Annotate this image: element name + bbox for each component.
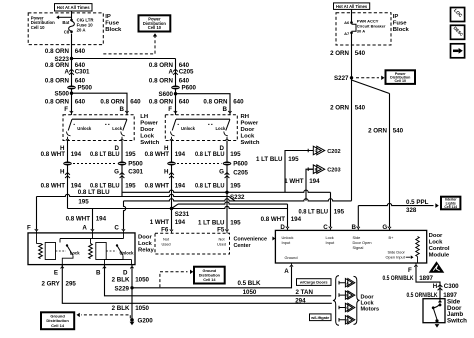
svg-text:194: 194 [175, 151, 186, 158]
svg-text:H: H [60, 169, 65, 176]
relay coil core (center) [96, 243, 106, 260]
svg-text:0.8 ORN: 0.8 ORN [149, 98, 174, 105]
svg-text:C203: C203 [327, 168, 340, 174]
svg-text:540: 540 [393, 128, 404, 135]
wire: LT BLU 195 bus (S232 line) [122, 190, 331, 192]
button DESC [451, 25, 465, 39]
svg-text:IP: IP [393, 14, 399, 20]
svg-text:0.8 ORN: 0.8 ORN [45, 48, 70, 55]
svg-text:0.8 ORN: 0.8 ORN [45, 98, 70, 105]
svg-text:30 A: 30 A [357, 28, 365, 33]
wire: 2 BLK 1050 relay D to G200 [131, 265, 133, 320]
wire: F6 drop 1 WHT 194 [171, 209, 173, 230]
reference box: Ground Distribution Cell 14 (center) [194, 267, 225, 284]
button LOC [451, 8, 465, 22]
wire: 0.8 WHT 194 to relay A [92, 209, 94, 230]
RH switch lock blade [226, 119, 230, 130]
splice S229 [130, 286, 133, 289]
svg-text:IP: IP [105, 14, 111, 20]
relay lock coil (center resistor) [90, 239, 92, 244]
svg-text:Cell 10: Cell 10 [31, 25, 45, 30]
circuit breaker PWR ACCY 30A (element) [351, 9, 353, 22]
svg-text:S231: S231 [175, 211, 190, 218]
reference box: Ground Distribution Cell 14 (left) [41, 312, 74, 329]
svg-text:Signal: Signal [353, 245, 364, 250]
wire: 2 ORN 540 from breaker [351, 45, 353, 201]
splice S231 [170, 207, 173, 210]
svg-text:328: 328 [406, 207, 417, 214]
svg-text:2 ORN: 2 ORN [330, 50, 349, 57]
svg-text:1050: 1050 [135, 305, 149, 312]
svg-text:195: 195 [288, 156, 299, 163]
wire: 1 WHT 194 riser to C203 [306, 169, 313, 201]
svg-text:540: 540 [355, 105, 366, 112]
RH power door lock switch box [165, 115, 237, 141]
svg-text:0.8 ORN: 0.8 ORN [203, 98, 228, 105]
wire: WHT 194 to module D (upper run) [172, 204, 179, 208]
svg-text:195: 195 [125, 183, 136, 190]
door lock relay box [28, 233, 135, 265]
svg-text:F5: F5 [217, 227, 225, 234]
ESD sensitive device symbol [429, 261, 445, 273]
wire: 0.5 ORN/BLK 1897 from module F [416, 266, 440, 303]
svg-text:A: A [82, 225, 87, 232]
svg-text:H: H [164, 169, 169, 176]
svg-text:Distribution: Distribution [199, 274, 221, 278]
svg-text:F: F [168, 106, 172, 113]
svg-text:A7: A7 [344, 31, 350, 36]
svg-text:Door: Door [429, 233, 443, 239]
svg-text:C301: C301 [75, 68, 90, 75]
LH power door lock switch box [63, 115, 134, 141]
arrow to side door open input resistor [406, 256, 411, 258]
svg-text:Bat: Bat [62, 20, 69, 25]
svg-text:Lock: Lock [241, 133, 255, 139]
svg-text:Hot At All Times: Hot At All Times [57, 5, 90, 10]
svg-text:S229: S229 [115, 286, 130, 293]
splice S227 [350, 76, 353, 79]
svg-text:2 GRY: 2 GRY [41, 280, 60, 287]
relay lock contact [66, 244, 68, 246]
svg-text:E: E [54, 269, 58, 276]
svg-text:S227: S227 [334, 75, 349, 82]
svg-text:Door: Door [241, 127, 255, 133]
svg-text:C301: C301 [128, 169, 143, 176]
dashed reference to ground distribution (G200) [81, 315, 130, 318]
side door jamb switch box [423, 299, 445, 323]
RH switch mechanical link [178, 123, 181, 125]
svg-text:Fuse: Fuse [105, 20, 119, 26]
connector C202 (double triangle) [308, 149, 313, 153]
wire: 2 GRY 295 relay E to door lock motors [62, 265, 332, 304]
pin H (RH switch bottom) [170, 137, 173, 141]
svg-text:G200: G200 [138, 317, 154, 324]
LH switch unlock blade [68, 119, 72, 130]
svg-text:640: 640 [179, 77, 190, 84]
dashed reference to ground distribution (S229) [160, 272, 188, 288]
door lock motor B [339, 293, 345, 297]
svg-text:P600: P600 [233, 161, 248, 168]
svg-text:640: 640 [75, 98, 86, 105]
svg-text:Lock: Lock [70, 250, 80, 255]
svg-text:H: H [433, 283, 438, 290]
svg-text:2 BLK: 2 BLK [112, 305, 130, 312]
svg-text:540: 540 [355, 50, 366, 57]
svg-text:195: 195 [230, 151, 241, 158]
svg-text:194: 194 [71, 151, 82, 158]
svg-text:1 WHT: 1 WHT [150, 219, 169, 226]
svg-text:194: 194 [175, 219, 186, 226]
svg-text:1 LT BLU: 1 LT BLU [198, 220, 225, 227]
svg-text:Lock: Lock [138, 241, 152, 247]
svg-text:Lock: Lock [361, 300, 375, 306]
svg-text:LH: LH [140, 114, 148, 120]
svg-text:195: 195 [78, 198, 89, 205]
wire: S600 branch to RH switch pin B [176, 94, 231, 115]
wire: 0.5 BLK 1050 S229 to module ground A [132, 266, 292, 288]
wire: 0.8 ORN 640 center vertical [175, 59, 177, 115]
svg-text:2 BLK: 2 BLK [112, 277, 130, 284]
svg-text:195: 195 [230, 183, 241, 190]
svg-text:Switch: Switch [241, 140, 260, 146]
svg-text:1050: 1050 [135, 277, 149, 284]
brace right (door lock motors) [354, 276, 360, 324]
svg-text:C300: C300 [444, 283, 459, 290]
wire: 0.8 LT BLU 195 from LH switch D [121, 141, 123, 197]
svg-text:A: A [169, 68, 174, 75]
svg-text:Cell 114: Cell 114 [444, 205, 457, 209]
arrow to power distribution [58, 16, 73, 18]
LH switch lock blade [123, 119, 127, 130]
svg-text:0.8 WHT: 0.8 WHT [41, 151, 66, 158]
option label w/Cargo Doors [297, 279, 332, 286]
svg-text:Motors: Motors [361, 307, 380, 313]
svg-text:0.8 LT BLU: 0.8 LT BLU [195, 151, 225, 158]
wire: 2 TAN 294 relay B to door lock motors [105, 265, 332, 296]
option label w/Liftgate [310, 314, 332, 321]
svg-text:Lock: Lock [216, 126, 226, 131]
svg-text:F: F [64, 106, 68, 113]
svg-text:194: 194 [291, 216, 302, 223]
dashed reference to power distribution (S227) [356, 77, 379, 79]
wire: relay C drop [124, 201, 126, 230]
svg-text:C202: C202 [327, 149, 340, 155]
svg-text:C205: C205 [179, 68, 194, 75]
svg-text:Cell 10: Cell 10 [394, 79, 406, 83]
wire: 0.8 WHT 194 from LH switch H [67, 141, 69, 209]
svg-text:20 A: 20 A [77, 28, 86, 33]
svg-text:Cell 14: Cell 14 [51, 323, 65, 328]
wire: 0.8 LT BLU 195 from RH switch D [226, 141, 228, 230]
pass-through grommets P500 (lower) [63, 162, 72, 166]
svg-text:Unlock: Unlock [120, 250, 135, 255]
relay link dashed (right) [106, 250, 116, 252]
svg-text:Input: Input [282, 240, 292, 245]
svg-text:C: C [114, 225, 119, 232]
svg-text:P500: P500 [78, 85, 93, 92]
label: Hot At All Times (left) [55, 4, 93, 11]
dashed reference wire to power distribution (top middle) [103, 36, 155, 54]
label: Hot At All Times (right) [334, 3, 370, 9]
svg-text:1050: 1050 [243, 289, 257, 296]
svg-text:0.8 WHT: 0.8 WHT [41, 183, 66, 190]
svg-text:RH: RH [241, 114, 250, 120]
svg-text:F6: F6 [161, 227, 169, 234]
splice S232 [225, 191, 228, 194]
pass-through grommet P600 [171, 86, 180, 90]
svg-text:Used: Used [161, 241, 170, 246]
svg-text:Block: Block [105, 27, 122, 33]
svg-text:640: 640 [75, 48, 86, 55]
svg-text:C205: C205 [233, 170, 248, 177]
svg-text:194: 194 [309, 178, 320, 185]
svg-text:B: B [96, 269, 101, 276]
svg-text:2 ORN: 2 ORN [368, 128, 387, 135]
svg-text:Convenience: Convenience [234, 237, 268, 243]
svg-text:195: 195 [334, 209, 345, 216]
wire: relay F drop [36, 197, 38, 230]
wire: 0.8 LT BLU 195 module C drop [330, 192, 332, 227]
svg-text:F: F [27, 225, 31, 232]
wire: 0.8 WHT 194 from RH switch H [171, 141, 173, 209]
wire: 0.8 LT BLU 195 to relay F [37, 194, 230, 196]
door lock motor D [339, 318, 345, 322]
svg-text:S600: S600 [159, 91, 174, 98]
svg-text:D: D [280, 224, 285, 231]
svg-text:Control: Control [429, 246, 450, 252]
svg-text:P600: P600 [182, 85, 197, 92]
svg-text:0.8 ORN: 0.8 ORN [45, 77, 70, 84]
svg-text:Unlock: Unlock [181, 126, 196, 131]
svg-text:0.5 ORN/BLK: 0.5 ORN/BLK [383, 275, 414, 282]
svg-text:Module: Module [429, 253, 450, 259]
door lock motor A [339, 281, 345, 285]
svg-text:S232: S232 [230, 194, 245, 201]
svg-text:A: A [284, 268, 289, 275]
svg-text:B+: B+ [389, 235, 395, 240]
wire: diagonal branch from S227 [352, 80, 390, 94]
LH switch mechanical link [74, 123, 77, 125]
convenience center dashed box [155, 233, 230, 254]
connector C203 (double triangle) [308, 167, 313, 171]
svg-text:295: 295 [66, 280, 77, 287]
svg-text:195: 195 [230, 220, 241, 227]
svg-text:0.8 WHT: 0.8 WHT [261, 216, 286, 223]
svg-text:F: F [408, 267, 412, 274]
svg-text:G: G [382, 224, 387, 231]
splice S500 [70, 92, 73, 95]
wire: 0.8 ORN 640 left vertical [71, 34, 73, 115]
input marker arrow (module left) [272, 237, 275, 241]
svg-text:D: D [123, 269, 128, 276]
svg-text:194: 194 [175, 183, 186, 190]
relay unlock contact [116, 244, 118, 246]
reference box: Power Distribution Cell 10 (top middle) [139, 15, 171, 31]
module internal resistor [416, 237, 419, 257]
svg-text:0.8 LT BLU: 0.8 LT BLU [90, 151, 120, 158]
svg-text:Ground: Ground [285, 255, 298, 260]
relay link dashed (left) [56, 250, 67, 252]
svg-text:640: 640 [130, 98, 141, 105]
splice S600 [174, 92, 177, 95]
svg-text:0.8 WHT: 0.8 WHT [145, 183, 170, 190]
relay unlock coil (left resistor) [36, 233, 38, 244]
svg-text:Relay: Relay [138, 247, 154, 253]
svg-text:Lock: Lock [429, 240, 443, 246]
svg-text:0.8 WHT: 0.8 WHT [66, 216, 91, 223]
wire: 2 ORN 540 to module G [389, 94, 391, 227]
svg-text:P500: P500 [128, 161, 143, 168]
wire: S223 to center column [72, 58, 176, 60]
svg-text:Block: Block [393, 27, 410, 33]
IP fuse block dashed box (left) [28, 13, 103, 45]
brace left (door lock motors) [333, 276, 339, 326]
relay coil core (left) [45, 243, 55, 260]
svg-text:Door: Door [361, 294, 375, 300]
svg-text:0.8 ORN: 0.8 ORN [149, 77, 174, 84]
relay internal top rail [60, 238, 124, 240]
side door jamb switch element [438, 299, 441, 303]
wire: 0.5 PPL 328 module B to interior lights [357, 206, 359, 227]
svg-text:0.8 LT BLU: 0.8 LT BLU [195, 183, 225, 190]
button next arrow [451, 44, 465, 58]
svg-text:640: 640 [233, 98, 244, 105]
reference box: Power Distribution Cell 10 (right) [386, 70, 416, 84]
svg-text:195: 195 [125, 151, 136, 158]
splice S223 [70, 57, 73, 60]
svg-text:0.5 BLK: 0.5 BLK [237, 280, 261, 287]
svg-text:0.8 LT BLU: 0.8 LT BLU [299, 209, 329, 216]
LH switch common bar [72, 118, 127, 120]
reference box: Interior Lights Cell 114 [441, 197, 460, 210]
svg-text:1897: 1897 [419, 275, 433, 282]
svg-text:Ground: Ground [202, 269, 216, 273]
wire: module D drop [287, 204, 289, 227]
pass-through grommet P500 [67, 86, 76, 90]
svg-text:B: B [120, 106, 125, 113]
svg-text:A6: A6 [344, 20, 350, 25]
svg-text:1 WHT: 1 WHT [284, 178, 303, 185]
fuse F10 CIG LTR (element) [71, 11, 73, 19]
svg-text:Door: Door [140, 127, 154, 133]
door lock motor C [339, 306, 345, 310]
svg-text:Hot At All Times: Hot At All Times [336, 4, 368, 9]
svg-text:Lock: Lock [112, 126, 122, 131]
svg-text:0.8 LT BLU: 0.8 LT BLU [78, 189, 110, 196]
svg-text:w/Cargo Doors: w/Cargo Doors [299, 280, 328, 285]
svg-text:Power: Power [140, 120, 158, 126]
svg-text:Door: Door [138, 234, 152, 240]
svg-text:B: B [223, 106, 228, 113]
wire: 1 LT BLU 195 riser to C202 [285, 151, 313, 193]
svg-text:B: B [352, 224, 357, 231]
svg-text:2 ORN: 2 ORN [330, 105, 349, 112]
svg-text:194: 194 [96, 216, 107, 223]
svg-text:C: C [323, 224, 328, 231]
svg-text:A: A [65, 68, 70, 75]
svg-text:Cell 10: Cell 10 [148, 25, 162, 30]
wire: relay C feed line [124, 199, 352, 201]
svg-text:w/Liftgate: w/Liftgate [310, 315, 330, 320]
svg-text:Input: Input [326, 240, 336, 245]
IP fuse block dashed box (right) [336, 13, 391, 45]
svg-text:Used: Used [217, 241, 226, 246]
svg-text:640: 640 [75, 77, 86, 84]
svg-text:0.8 ORN: 0.8 ORN [100, 98, 125, 105]
wire: S500 branch to LH switch pin B [72, 93, 128, 115]
svg-text:Cell 14: Cell 14 [203, 278, 216, 282]
svg-text:Unlock: Unlock [77, 126, 92, 131]
svg-text:Switch: Switch [447, 318, 467, 325]
svg-text:G: G [219, 169, 224, 176]
svg-text:Open Input: Open Input [386, 254, 406, 259]
door lock control module box [275, 230, 426, 263]
pin D (RH switch bottom) [225, 137, 228, 141]
svg-text:Center: Center [234, 243, 252, 249]
svg-text:Switch: Switch [140, 140, 159, 146]
svg-text:640: 640 [179, 98, 190, 105]
svg-text:G: G [114, 169, 119, 176]
svg-text:C8: C8 [64, 30, 70, 35]
RH switch unlock blade [172, 119, 176, 130]
pin H (LH switch bottom) [66, 137, 69, 141]
svg-text:0.8 WHT: 0.8 WHT [145, 151, 170, 158]
svg-text:Lock: Lock [140, 133, 154, 139]
svg-text:Fuse: Fuse [393, 20, 407, 26]
wire: WHT 194 bus (S231 line) [68, 206, 288, 208]
svg-text:2 TAN: 2 TAN [296, 289, 314, 296]
RH switch common bar [176, 118, 230, 120]
svg-text:0.5 ORN/BLK: 0.5 ORN/BLK [407, 292, 438, 299]
svg-text:0.5 PPL: 0.5 PPL [406, 199, 429, 206]
ground G200 [130, 318, 134, 322]
pin D (LH switch bottom) [120, 137, 123, 141]
pass-through grommets P600 (lower) [167, 162, 176, 166]
svg-text:S500: S500 [55, 90, 70, 97]
svg-text:Power: Power [241, 120, 259, 126]
svg-text:1 LT BLU: 1 LT BLU [256, 156, 283, 163]
